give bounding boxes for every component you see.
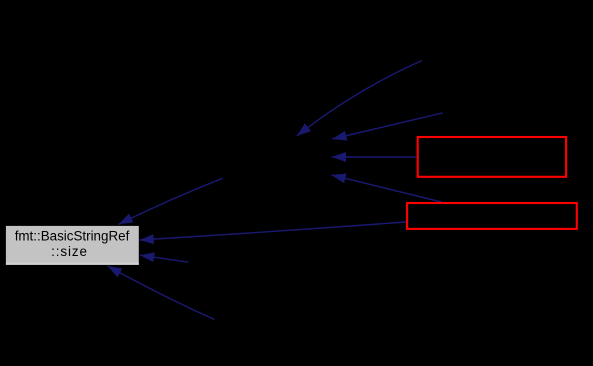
wire edge E6 (from red box 2 left edge to gray node right edge) [140,222,407,240]
wire edge E2 [332,113,443,139]
wire edge E7 (short, into gray node right edge) [140,255,189,262]
wire edge E8 (curved, from below into gray node bottom edge) [108,266,215,320]
wire edge E5 (into gray node top-right corner) [119,178,223,224]
svg-text:::size: ::size [51,244,88,259]
wire edge E1 (curved, from upper-right node to invisible center node) [297,61,422,137]
svg-text:fmt::BasicStringRef: fmt::BasicStringRef [15,229,130,244]
wire edge E4 (from red box 2 top edge) [332,175,442,202]
node red box 2 (truncated caller, label hidden on black) [407,203,577,229]
node red box 1 (truncated caller, label hidden on black) [418,137,566,177]
node fmt::BasicStringRef::size (current node, gray) [6,226,139,265]
wire edge E3 (from red box 1, horizontal) [332,156,417,158]
